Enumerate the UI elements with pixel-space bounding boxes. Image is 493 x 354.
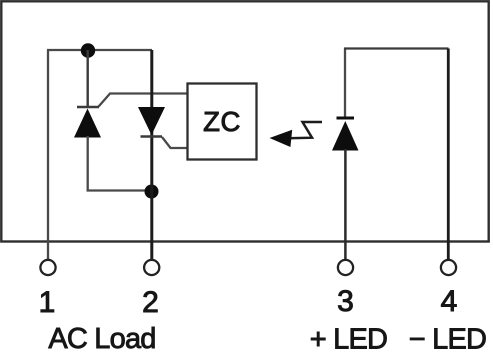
wire SCR2 gate bbox=[162, 137, 187, 148]
terminal 3 bbox=[338, 260, 353, 275]
led cathode bar bbox=[337, 117, 355, 120]
wire terminal2 riser bbox=[150, 50, 153, 260]
wire terminal1 riser bbox=[47, 50, 49, 260]
thyristor SCR2 cathode bar bbox=[141, 135, 163, 137]
svg-text:+ LED: + LED bbox=[310, 324, 387, 354]
terminal 1 bbox=[40, 260, 55, 275]
thyristor SCR1 body bbox=[74, 109, 101, 138]
wire SCR1 anode drop bbox=[86, 50, 88, 108]
wire top-right horizontal bbox=[344, 47, 449, 49]
led body (up-pointing) bbox=[332, 121, 359, 151]
wire SCR1 lower lead bbox=[87, 136, 89, 192]
svg-text:1: 1 bbox=[39, 286, 56, 319]
svg-text:− LED: − LED bbox=[409, 324, 486, 354]
wire SCR1 gate bbox=[99, 94, 187, 107]
wire terminal3 riser bbox=[344, 149, 347, 260]
svg-text:2: 2 bbox=[142, 286, 159, 319]
svg-text:ZC: ZC bbox=[203, 106, 241, 137]
wire bottom horizontal to node bbox=[87, 189, 153, 191]
node top junction bbox=[81, 43, 95, 57]
wire terminal4 riser bbox=[447, 49, 450, 260]
terminal 2 bbox=[144, 260, 159, 275]
svg-text:AC Load: AC Load bbox=[48, 323, 155, 354]
svg-text:3: 3 bbox=[337, 285, 354, 318]
optical coupling arrow shaft bbox=[288, 122, 322, 138]
svg-text:4: 4 bbox=[441, 285, 458, 318]
wire top-left horizontal bbox=[47, 49, 152, 51]
thyristor SCR1 (up-pointing) cathode bar bbox=[77, 106, 99, 108]
zero-crossing block ZC bbox=[188, 84, 257, 160]
wire LED top lead bbox=[344, 49, 346, 119]
outer package box bbox=[1, 1, 488, 241]
optical coupling arrowhead bbox=[270, 130, 293, 147]
node bottom junction bbox=[145, 185, 159, 199]
terminal 4 bbox=[441, 260, 456, 275]
thyristor SCR2 (down-pointing) body bbox=[138, 107, 165, 135]
